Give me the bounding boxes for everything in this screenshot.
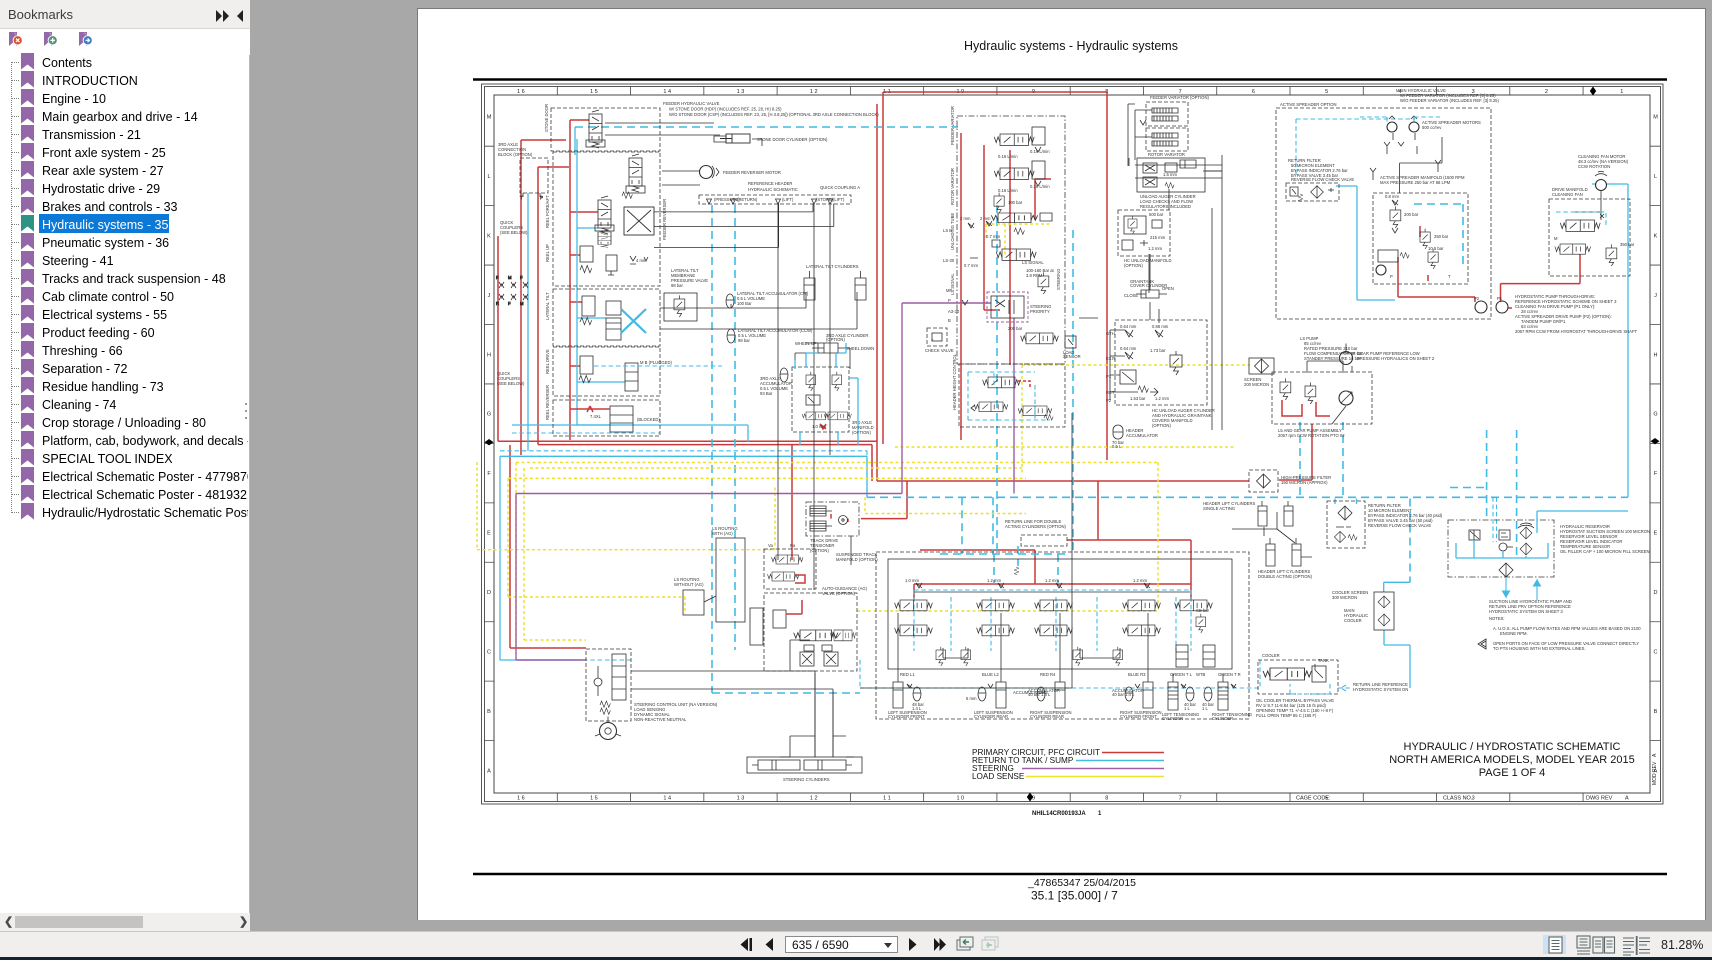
steering priority valve bbox=[987, 292, 1051, 322]
main return filter bbox=[1327, 501, 1443, 548]
svg-text:RET: RET bbox=[1106, 390, 1115, 395]
wire cyan bottom-left bundle bbox=[500, 193, 867, 660]
header accumulator bbox=[1112, 425, 1158, 449]
svg-text:REFERENCE HEADER: REFERENCE HEADER bbox=[748, 181, 792, 186]
suspension group 1 valves bbox=[895, 578, 946, 666]
wire red main pump riser bbox=[877, 92, 883, 481]
ag small block bbox=[750, 608, 763, 645]
steering wheel bbox=[595, 717, 621, 740]
reel reverser valve bbox=[570, 406, 660, 432]
wire red bank internals bbox=[961, 133, 1051, 440]
high pressure filter bbox=[1249, 470, 1331, 492]
svg-text:0.5 L: 0.5 L bbox=[1112, 444, 1122, 449]
svg-text:FEEDER REVERSER MOTOR: FEEDER REVERSER MOTOR bbox=[723, 170, 781, 175]
svg-text:FEEDER VARIATOR: FEEDER VARIATOR bbox=[950, 106, 955, 145]
right suspension cylinder rear bbox=[1028, 674, 1072, 719]
wire black reference header drops bbox=[654, 204, 834, 591]
svg-text:1 3: 1 3 bbox=[737, 796, 745, 802]
wire yellow load sense loop bbox=[477, 462, 1158, 650]
3rd axle cylinder bbox=[795, 333, 874, 353]
svg-text:B: B bbox=[948, 318, 951, 323]
3rd axle connection block bbox=[520, 158, 548, 200]
graintank wires bbox=[1110, 158, 1222, 400]
suspension tank spring bbox=[1014, 567, 1019, 575]
suction line note bbox=[1489, 599, 1572, 614]
title block bbox=[1389, 741, 1635, 779]
svg-text:STANDBY PRESSURE 18 bar: STANDBY PRESSURE 18 bar bbox=[1304, 356, 1361, 361]
svg-text:2 mm: 2 mm bbox=[960, 216, 971, 221]
svg-text:1.2 mm: 1.2 mm bbox=[987, 578, 1001, 583]
hc unload manifold bbox=[1118, 210, 1171, 268]
wire red long horizontal center bbox=[498, 167, 877, 648]
svg-text:L: L bbox=[1654, 174, 1657, 180]
svg-text:1.0 mm: 1.0 mm bbox=[812, 424, 826, 429]
svg-text:PRESSURE HYDRAULICS ON SHEET 2: PRESSURE HYDRAULICS ON SHEET 2 bbox=[1357, 356, 1435, 361]
lateral tilt crossover bbox=[621, 309, 646, 333]
svg-text:215 mm: 215 mm bbox=[1150, 235, 1166, 240]
left bank vertical labels bbox=[544, 104, 667, 420]
svg-text:MANIFOLD (OPTION): MANIFOLD (OPTION) bbox=[836, 557, 878, 562]
wire black spreader motor loop bbox=[1393, 133, 1442, 193]
reel drive valve bbox=[579, 356, 638, 391]
svg-text:0.16 L/min: 0.16 L/min bbox=[1030, 149, 1050, 154]
svg-text:M: M bbox=[1554, 236, 1558, 241]
svg-text:B: B bbox=[1654, 709, 1658, 715]
quick coupling label bbox=[497, 220, 528, 386]
svg-text:A3-30: A3-30 bbox=[948, 309, 960, 314]
ls routing with ag box bbox=[712, 526, 745, 622]
svg-text:2067 rpm CCW ROTATION PTO 02: 2067 rpm CCW ROTATION PTO 02 bbox=[1278, 433, 1345, 438]
svg-text:H: H bbox=[1654, 352, 1658, 358]
auto guidance valve cluster bbox=[764, 586, 868, 671]
svg-text:2067 RPM CCW FROM HYDROSTAT TH: 2067 RPM CCW FROM HYDROSTAT THROUGH-DRIV… bbox=[1515, 329, 1638, 334]
wire black 3rd axle bbox=[795, 343, 850, 369]
svg-text:ENGINE RPM.: ENGINE RPM. bbox=[1500, 631, 1528, 636]
suspension group 4 valves bbox=[1113, 578, 1160, 666]
svg-text:1: 1 bbox=[1620, 89, 1623, 95]
left suspension cylinder front bbox=[888, 674, 927, 719]
ls and gear pump assembly bbox=[1272, 366, 1372, 438]
svg-text:2: 2 bbox=[1545, 89, 1548, 95]
return line dashed box bbox=[1005, 519, 1067, 546]
svg-text:35.1 [35.000] / 7: 35.1 [35.000] / 7 bbox=[1031, 889, 1118, 903]
svg-text:BLOCK (OPTION): BLOCK (OPTION) bbox=[498, 152, 533, 157]
svg-text:ROTOR VARIATOR: ROTOR VARIATOR bbox=[950, 168, 955, 205]
svg-text:1 4: 1 4 bbox=[663, 796, 671, 802]
svg-text:6: 6 bbox=[1252, 89, 1255, 95]
svg-text:190 bar: 190 bar bbox=[1008, 200, 1023, 205]
svg-text:1.73 bar: 1.73 bar bbox=[1150, 348, 1166, 353]
wire red pump links right bbox=[1398, 254, 1580, 308]
svg-text:MAX PRESSURE 250 bar AT 68 LPM: MAX PRESSURE 250 bar AT 68 LPM bbox=[1380, 180, 1451, 185]
svg-text:200 bar: 200 bar bbox=[1404, 212, 1419, 217]
svg-text:WHEEL UP: WHEEL UP bbox=[795, 341, 817, 346]
main bank orifice marks bbox=[948, 216, 978, 314]
svg-text:P: P bbox=[540, 195, 543, 200]
svg-text:J: J bbox=[488, 293, 491, 299]
svg-text:98 bar: 98 bar bbox=[738, 338, 750, 343]
wire black right columns bbox=[851, 155, 1222, 688]
steering link wires bbox=[780, 673, 854, 757]
left tensioning cylinder bbox=[1162, 674, 1199, 721]
svg-text:TO PTS HOUSING WITH NO EXTERNA: TO PTS HOUSING WITH NO EXTERNAL LINES. bbox=[1493, 646, 1586, 651]
svg-text:150 MICRON (APPROX): 150 MICRON (APPROX) bbox=[1281, 480, 1328, 485]
svg-text:0.64 mm: 0.64 mm bbox=[1120, 346, 1137, 351]
svg-text:E: E bbox=[487, 531, 491, 537]
top heavy rule bbox=[473, 78, 1667, 81]
header lift cylinders double acting bbox=[1258, 538, 1313, 579]
svg-text:(SEE BELOW): (SEE BELOW) bbox=[500, 230, 528, 235]
reel reverser section border bbox=[553, 400, 660, 436]
suspension internal piping bbox=[898, 592, 1190, 674]
svg-text:NHIL14CR00193JA: NHIL14CR00193JA bbox=[1032, 811, 1086, 817]
caret of combobox bbox=[888, 943, 896, 948]
suspension group 5 valves bbox=[1175, 600, 1215, 667]
svg-text:H: H bbox=[487, 352, 491, 358]
svg-text:(RETURN): (RETURN) bbox=[737, 197, 758, 202]
svg-text:REGULATORS INCLUDED: REGULATORS INCLUDED bbox=[1140, 204, 1191, 209]
legend color keys bbox=[1022, 753, 1164, 777]
return filter spreader bbox=[1286, 158, 1354, 202]
vertical MOD REV text on right band bbox=[1652, 753, 1658, 785]
cooler screen and main cooler bbox=[1332, 590, 1394, 630]
drawing frame outer bbox=[482, 84, 1664, 804]
svg-text:W/O FEEDER VARIATOR (INCLUDES: W/O FEEDER VARIATOR (INCLUDES REF. [3] 8… bbox=[1400, 98, 1499, 103]
reference header coupling row bbox=[699, 195, 851, 204]
svg-text:T: T bbox=[520, 195, 523, 200]
svg-text:HEADER HEIGHT CONTROL: HEADER HEIGHT CONTROL bbox=[952, 353, 957, 410]
accumulator charge valve bbox=[1008, 326, 1058, 344]
main bank LS signal valve bbox=[980, 216, 1044, 265]
gear pump bbox=[1340, 344, 1435, 365]
svg-text:93 Bar: 93 Bar bbox=[760, 391, 773, 396]
svg-text:SENSOR: SENSOR bbox=[1063, 354, 1081, 359]
wire cyan spreader filter bbox=[1296, 119, 1415, 175]
svg-text:ACCUMULATOR: ACCUMULATOR bbox=[1126, 433, 1158, 438]
svg-text:DWG REV: DWG REV bbox=[1586, 796, 1613, 802]
svg-text:LS SIGNAL: LS SIGNAL bbox=[1022, 260, 1044, 265]
svg-text:8: 8 bbox=[1105, 796, 1108, 802]
svg-text:D: D bbox=[487, 590, 491, 596]
svg-text:K: K bbox=[487, 233, 491, 239]
svg-text:P: P bbox=[948, 298, 951, 303]
svg-text:4 mm: 4 mm bbox=[636, 258, 647, 263]
suspension port labels bbox=[900, 672, 1241, 677]
svg-text:Pa: Pa bbox=[790, 543, 796, 548]
svg-text:STEERING CYLINDERS: STEERING CYLINDERS bbox=[783, 777, 830, 782]
svg-text:E: E bbox=[1654, 531, 1658, 537]
wire cyan center dashed verticals bbox=[712, 205, 860, 693]
svg-text:7: 7 bbox=[1179, 796, 1182, 802]
svg-text:0.16 L/min: 0.16 L/min bbox=[998, 188, 1018, 193]
svg-text:(OPTION): (OPTION) bbox=[1152, 423, 1171, 428]
svg-text:(BLOCKED): (BLOCKED) bbox=[637, 417, 660, 422]
svg-text:(OPTION): (OPTION) bbox=[852, 430, 871, 435]
svg-text:_47865347 25/04/2015: _47865347 25/04/2015 bbox=[1027, 877, 1136, 889]
svg-text:TANK: TANK bbox=[1318, 658, 1329, 663]
reference header label bbox=[748, 181, 860, 192]
svg-text:NOTES:: NOTES: bbox=[1489, 616, 1505, 621]
svg-text:0.8 mm: 0.8 mm bbox=[1385, 194, 1399, 199]
svg-text:(LIFT): (LIFT) bbox=[782, 197, 794, 202]
graintank covers manifold bbox=[1106, 320, 1215, 428]
svg-text:QUICK COUPLING A: QUICK COUPLING A bbox=[820, 185, 860, 190]
svg-text:1.5 mm: 1.5 mm bbox=[1163, 172, 1177, 177]
svg-text:HYDROSTATIC SYSTEM ON SHEET 3: HYDROSTATIC SYSTEM ON SHEET 3 bbox=[1489, 609, 1563, 614]
left suspension cylinder rear bbox=[966, 674, 1013, 719]
svg-text:OPEN: OPEN bbox=[1162, 286, 1174, 291]
wire red left-bank feed vertical bbox=[521, 120, 598, 455]
svg-text:FEEDER VARIATOR (OPTION): FEEDER VARIATOR (OPTION) bbox=[1150, 95, 1209, 100]
svg-text:LS-30: LS-30 bbox=[943, 258, 955, 263]
bottom band cell labels bbox=[1296, 796, 1629, 802]
svg-text:C: C bbox=[1654, 649, 1658, 655]
svg-text:500 cc/rev: 500 cc/rev bbox=[1422, 125, 1442, 130]
wire red suspension feed bbox=[792, 445, 1191, 599]
svg-text:REEL FORE/AFT: REEL FORE/AFT bbox=[545, 195, 550, 228]
feeder variator bbox=[1146, 95, 1209, 126]
svg-text:1.2 mm: 1.2 mm bbox=[1155, 396, 1169, 401]
svg-text:1 1: 1 1 bbox=[883, 796, 891, 802]
svg-text:(OPTION): (OPTION) bbox=[1124, 263, 1143, 268]
wire black cleaning fan motor drop bbox=[1575, 191, 1601, 221]
svg-text:WITH (AG): WITH (AG) bbox=[712, 531, 733, 536]
steering cylinders bbox=[747, 757, 862, 782]
svg-text:CLOSE: CLOSE bbox=[1124, 293, 1138, 298]
svg-text:100 Bar: 100 Bar bbox=[737, 301, 752, 306]
svg-text:BLUE R3: BLUE R3 bbox=[1128, 672, 1146, 677]
wire cyan cleaning fan return bbox=[1592, 184, 1628, 497]
svg-text:1 5: 1 5 bbox=[590, 89, 598, 95]
wire black steering lines bbox=[631, 640, 833, 757]
svg-text:M: M bbox=[508, 275, 512, 280]
spreader motor valves bbox=[1370, 142, 1441, 180]
unload auger manifold bbox=[1137, 158, 1205, 209]
svg-text:GREEN T R: GREEN T R bbox=[1218, 672, 1241, 677]
svg-text:REVERSE FLOW CHECK VALVE: REVERSE FLOW CHECK VALVE bbox=[1368, 523, 1431, 528]
wire black header lift lines bbox=[1232, 512, 1312, 557]
svg-text:CHECK VALVE: CHECK VALVE bbox=[925, 348, 954, 353]
svg-text:5: 5 bbox=[1325, 89, 1328, 95]
header height internal cyan bbox=[968, 372, 1050, 420]
svg-text:0.64 mm: 0.64 mm bbox=[1120, 324, 1137, 329]
suspension group 3 valves bbox=[1035, 578, 1083, 666]
svg-text:(OPTION): (OPTION) bbox=[826, 337, 845, 342]
suspended track manifold inner frame bbox=[888, 559, 1232, 669]
svg-text:G: G bbox=[1653, 412, 1657, 418]
legend bbox=[972, 748, 1100, 781]
svg-text:J: J bbox=[1654, 293, 1657, 299]
svg-text:PAGE 1 OF 4: PAGE 1 OF 4 bbox=[1479, 767, 1545, 779]
suspended track manifold outer border bbox=[876, 552, 1249, 719]
notes block bbox=[1478, 616, 1641, 651]
svg-text:7.4XL: 7.4XL bbox=[590, 414, 602, 419]
svg-text:L: L bbox=[487, 174, 490, 180]
svg-text:3.8 RPM: 3.8 RPM bbox=[1026, 273, 1043, 278]
svg-text:0.16 L/min: 0.16 L/min bbox=[998, 154, 1018, 159]
right tensioning cylinder bbox=[1202, 674, 1252, 721]
svg-text:98 bar: 98 bar bbox=[671, 283, 683, 288]
footer rule bbox=[473, 873, 1667, 875]
main hydraulic valve note bbox=[1396, 88, 1499, 103]
svg-text:F: F bbox=[508, 301, 511, 306]
svg-text:REVERSE FLOW CHECK VALVE: REVERSE FLOW CHECK VALVE bbox=[1291, 177, 1354, 182]
svg-text:W/O STONE DOOR (CSP) (INCLUDES: W/O STONE DOOR (CSP) (INCLUDES REF. 23, … bbox=[669, 112, 879, 117]
svg-text:Va: Va bbox=[768, 543, 773, 548]
svg-text:ACTIVE SPREADER OPTION: ACTIVE SPREADER OPTION bbox=[1280, 102, 1337, 107]
svg-text:F: F bbox=[1654, 471, 1658, 477]
svg-text:1 L: 1 L bbox=[1184, 706, 1190, 711]
main bank relief valve bbox=[994, 193, 1023, 213]
prev/next view icons bbox=[957, 937, 973, 950]
wire red return to HP filter bbox=[877, 424, 1312, 481]
hydraulic reservoir bbox=[1448, 511, 1650, 577]
main bank vertical labels bbox=[950, 106, 1061, 295]
wire cyan oil-cooler bottom bbox=[860, 660, 1260, 688]
svg-text:C: C bbox=[487, 649, 491, 655]
wire yellow bank segments bbox=[986, 224, 1051, 258]
svg-text:A: A bbox=[1625, 796, 1629, 802]
oil cooler thermal bypass valve bbox=[1256, 653, 1338, 718]
svg-text:K: K bbox=[1654, 233, 1658, 239]
header lift cylinders single acting bbox=[1203, 501, 1293, 526]
svg-text:PRIORITY: PRIORITY bbox=[1030, 309, 1050, 314]
wire cyan return main bbox=[867, 496, 1628, 498]
svg-text:6 mm: 6 mm bbox=[966, 696, 977, 701]
svg-text:P2: P2 bbox=[1474, 296, 1480, 301]
right suspension cylinder front bbox=[1112, 674, 1162, 719]
svg-text:F: F bbox=[520, 275, 523, 280]
header height lower valve bbox=[971, 402, 1008, 412]
frame column ticks and numbers bbox=[557, 87, 1583, 802]
layout icons bbox=[1543, 935, 1566, 954]
svg-text:STONE DOOR CYLINDER (OPTION): STONE DOOR CYLINDER (OPTION) bbox=[757, 137, 828, 142]
svg-text:(STORE): (STORE) bbox=[816, 197, 834, 202]
svg-text:1 3: 1 3 bbox=[737, 89, 745, 95]
frame reference diamonds bbox=[485, 87, 1660, 802]
svg-text:LATERAL TILT: LATERAL TILT bbox=[545, 292, 550, 320]
wire cyan reference header drops bbox=[940, 205, 1073, 584]
wheel cyan loop bbox=[795, 360, 858, 445]
wire cyan right-mid risers bbox=[1410, 430, 1517, 582]
svg-text:F: F bbox=[487, 471, 491, 477]
wire red top loop bbox=[883, 92, 1107, 460]
svg-text:VALVE (OPTION): VALVE (OPTION) bbox=[822, 591, 855, 596]
svg-text:A: A bbox=[1652, 753, 1658, 757]
svg-text:WITHOUT (AG): WITHOUT (AG) bbox=[674, 582, 704, 587]
lateral tilt cylinders bbox=[804, 264, 866, 300]
svg-text:40 bar 1.4 L: 40 bar 1.4 L bbox=[1112, 692, 1135, 697]
svg-text:300 MICRON: 300 MICRON bbox=[1332, 595, 1357, 600]
stone door section border bbox=[551, 108, 660, 151]
svg-text:1 2: 1 2 bbox=[810, 89, 818, 95]
svg-text:M: M bbox=[487, 115, 492, 121]
reservoir outlet diamond bbox=[1499, 563, 1541, 600]
svg-text:FULL OPEN TEMP 85 C (185 F): FULL OPEN TEMP 85 C (185 F) bbox=[1256, 713, 1317, 718]
reel drive section border bbox=[553, 347, 660, 396]
variator feed wires bbox=[1128, 104, 1152, 166]
svg-text:W/ STONE DOOR (HDP) (INCLUDES: W/ STONE DOOR (HDP) (INCLUDES REF. 25, 2… bbox=[669, 107, 782, 112]
frame row ticks and letters bbox=[485, 146, 1661, 740]
svg-text:1 4: 1 4 bbox=[663, 89, 671, 95]
svg-text:T: T bbox=[1448, 274, 1451, 279]
lateral tilt membrane pressure valve bbox=[664, 293, 697, 321]
return line reference label bbox=[1338, 682, 1408, 692]
rotor variator bbox=[1146, 128, 1188, 157]
feeder reverser section border bbox=[553, 152, 660, 286]
main hydraulic valve bank border bbox=[957, 116, 1065, 364]
stone door valve bbox=[586, 110, 605, 148]
active spreader motors bbox=[1387, 116, 1481, 132]
svg-text:STONE DOOR: STONE DOOR bbox=[544, 104, 549, 132]
load sensor bbox=[1063, 336, 1081, 359]
feeder hydraulic valve note bbox=[663, 101, 879, 117]
svg-text:1.2 mm: 1.2 mm bbox=[1133, 578, 1147, 583]
header height control border bbox=[959, 364, 1065, 427]
priority relief valve bbox=[1026, 268, 1055, 294]
svg-text:CLASS NO.: CLASS NO. bbox=[1443, 796, 1473, 802]
active spreader manifold bbox=[1373, 175, 1468, 284]
svg-text:200 MICRON: 200 MICRON bbox=[1244, 382, 1269, 387]
svg-text:CYLINDER FRONT: CYLINDER FRONT bbox=[1120, 714, 1157, 719]
wire black gear pump column bbox=[1307, 353, 1355, 373]
wire cyan suspension cluster bbox=[914, 590, 1191, 651]
wire black unload auger links bbox=[1135, 165, 1222, 323]
svg-text:1.2 mm: 1.2 mm bbox=[1045, 578, 1059, 583]
svg-text:ROTOR VARIATOR: ROTOR VARIATOR bbox=[1148, 152, 1185, 157]
reel fore/aft valve bbox=[595, 196, 614, 247]
svg-text:40 bar 1.4 L: 40 bar 1.4 L bbox=[1028, 692, 1051, 697]
svg-text:250 bar: 250 bar bbox=[1434, 234, 1449, 239]
svg-text:1: 1 bbox=[1098, 811, 1102, 817]
lateral tilt accumulator CCW bbox=[727, 328, 813, 343]
svg-text:1.0 mm: 1.0 mm bbox=[905, 578, 919, 583]
svg-text:D: D bbox=[1654, 590, 1658, 596]
auto guidance upper valves bbox=[764, 543, 816, 589]
track drive tensioner bbox=[806, 502, 859, 553]
svg-text:BLUE L2: BLUE L2 bbox=[982, 672, 999, 677]
svg-text:P2: P2 bbox=[1106, 398, 1112, 403]
graintank cover cylinder bbox=[1124, 279, 1174, 298]
active spreader option border bbox=[1276, 102, 1491, 319]
svg-text:OIL FILLER CAP + 100 MICRON FI: OIL FILLER CAP + 100 MICRON FILL SCREEN bbox=[1560, 549, 1650, 554]
svg-text:CYLINDER REAR: CYLINDER REAR bbox=[1030, 714, 1064, 719]
main bank rotor variator valve bbox=[994, 161, 1050, 193]
check valve box bbox=[925, 328, 954, 353]
svg-text:NORTH AMERICA MODELS, MODEL YE: NORTH AMERICA MODELS, MODEL YEAR 2015 bbox=[1389, 754, 1635, 766]
wire black feeder motor lines bbox=[662, 171, 700, 185]
svg-text:CE bar: CE bar bbox=[1196, 608, 1210, 613]
cleaning fan drive manifold bbox=[1549, 187, 1635, 276]
svg-text:Hydraulic systems - Hydraulic: Hydraulic systems - Hydraulic systems bbox=[964, 39, 1178, 53]
svg-text:F: F bbox=[496, 275, 499, 280]
svg-text:LOAD SENSE: LOAD SENSE bbox=[972, 772, 1025, 781]
svg-text:REEL DRIVE: REEL DRIVE bbox=[545, 349, 550, 374]
svg-text:1 L: 1 L bbox=[1202, 706, 1208, 711]
svg-text:CCW ROTATION: CCW ROTATION bbox=[1578, 164, 1610, 169]
hydrostatic pumps bbox=[1474, 294, 1638, 334]
wire red spreader manifold bbox=[1420, 226, 1428, 281]
svg-text:1 2: 1 2 bbox=[810, 796, 818, 802]
stone door cylinder bbox=[714, 134, 750, 143]
svg-text:COOLER: COOLER bbox=[1262, 653, 1280, 658]
svg-text:REEL REVERSER: REEL REVERSER bbox=[545, 385, 550, 420]
svg-text:1 6: 1 6 bbox=[517, 796, 525, 802]
svg-text:R: R bbox=[496, 301, 499, 306]
svg-text:ACTING CYLINDERS (OPTION): ACTING CYLINDERS (OPTION) bbox=[1005, 524, 1067, 529]
lateral tilt section border bbox=[553, 289, 660, 346]
svg-text:WTB: WTB bbox=[1196, 672, 1206, 677]
